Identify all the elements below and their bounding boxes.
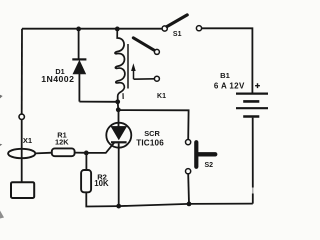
SCR cathode lead [118,143,120,206]
svg-text:6 A 12V: 6 A 12V [214,82,245,91]
contact K1 upper circle [154,49,159,54]
wire R1 to gate node [75,152,87,154]
wire anode node to S2 branch [118,110,188,139]
wire diode to coil bottom [79,101,117,103]
SCR circle [106,123,131,148]
node diode top junction [76,27,81,32]
diode D1 lead bottom [78,74,80,102]
wire R2 bottom lead to bottom rail [86,192,118,206]
contact K1 lower circle [154,76,159,81]
wire gate to SCR [86,142,114,153]
svg-text:10K: 10K [94,179,109,188]
svg-text:S2: S2 [205,162,214,169]
sensor X1 ellipse [8,149,35,158]
switch S2 stem [197,152,215,156]
switch S2 top circle [186,140,191,145]
svg-text:TIC106: TIC106 [136,138,164,147]
switch S2 bottom circle [186,169,191,174]
diode D1 cathode bar [72,58,86,60]
battery B1 plate long 2 [236,107,268,109]
coil exit tick [122,93,124,99]
SCR triangle [111,126,127,139]
wire ellipse to R1 [35,152,52,155]
wire bottom rail [119,204,253,207]
wire coil bottom to anode node [117,102,120,110]
svg-text:12K: 12K [55,137,69,146]
wire R2 top lead [85,153,87,170]
edge tick left upper [0,95,3,99]
node cathode bottom junction [116,204,121,209]
switch S1 left circle [162,26,167,31]
svg-text:SCR: SCR [144,129,160,138]
battery B1 plate short 2 [243,115,259,118]
node SCR anode junction [116,107,121,112]
wire left vertical [21,29,23,114]
label plus [255,83,260,88]
diode D1 lead top [78,29,80,59]
switch S2 plunger bar [194,142,198,167]
node coil top junction [115,27,120,32]
wire circle to ellipse [21,120,23,182]
resistor R2 [81,170,91,192]
edge smudge bottom-left [0,211,4,219]
wire S1 to battery corner [202,28,253,92]
wire S2 bottom lead [187,174,190,204]
diode D1 triangle [73,61,86,74]
svg-text:X1: X1 [23,136,33,145]
node gate junction [84,151,89,156]
svg-text:K1: K1 [157,93,166,100]
box below X1 [11,182,34,198]
SCR cathode bar [111,141,127,143]
svg-text:1N4002: 1N4002 [41,74,74,84]
battery B1 plate long 1 [236,92,268,94]
svg-text:S1: S1 [173,31,182,38]
node S2 bottom junction [187,202,192,207]
svg-text:B1: B1 [220,71,230,80]
edge tick left mid [0,144,2,146]
wire top-left horizontal [22,28,162,30]
switch S1 blade [167,15,187,27]
resistor R1 [52,148,75,156]
SCR anode lead [118,110,120,127]
battery B1 plate short 1 [243,100,259,103]
switch S1 right circle [196,26,201,31]
relay coil K1 [115,29,125,102]
node coil bottom junction [115,99,120,104]
wire arrow to contact [134,78,154,80]
relay arrow [133,69,135,79]
relay frame line [127,44,129,89]
terminal circle X1 top [19,114,24,119]
contact K1 blade [133,38,154,50]
battery bottom lead [252,118,254,204]
